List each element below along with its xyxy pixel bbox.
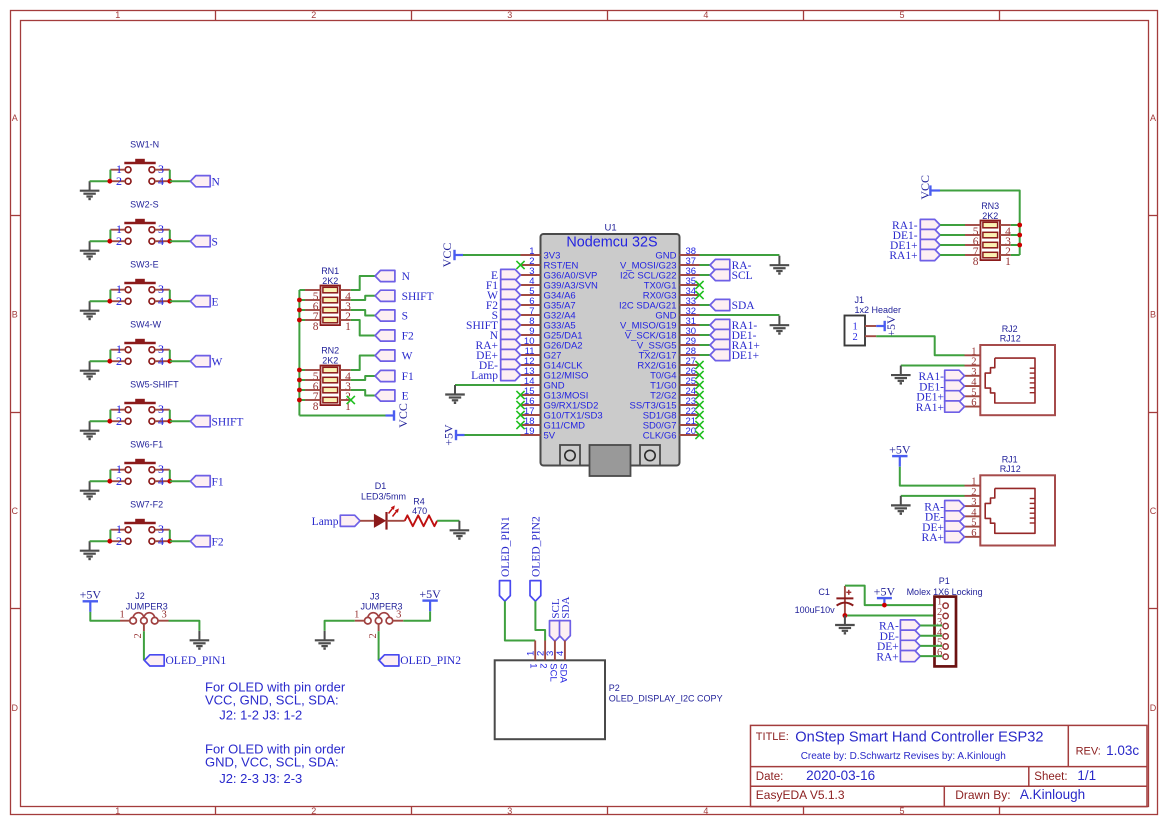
svg-text:4: 4 [158, 294, 164, 308]
svg-text:2: 2 [538, 663, 549, 668]
net flag DE+ [476, 349, 520, 362]
net flag W [190, 356, 222, 369]
pushbutton SW1-N [110, 140, 169, 189]
wire [920, 635, 942, 637]
junction [107, 239, 172, 244]
net flag OLED_PIN2 [530, 516, 543, 601]
svg-text:N: N [402, 271, 411, 283]
power VCC [918, 175, 940, 200]
wire [700, 304, 711, 306]
wire [700, 264, 711, 266]
connector RJ2 RJ12 [965, 324, 1056, 415]
svg-text:2: 2 [116, 474, 122, 488]
wire [700, 314, 780, 316]
svg-text:6: 6 [971, 398, 976, 409]
net flag DE1+ [916, 391, 964, 404]
wire VCC bus [299, 290, 385, 416]
ground [891, 366, 911, 384]
net flag S [375, 310, 408, 323]
svg-text:REV:: REV: [1076, 746, 1101, 758]
power +5V [441, 424, 464, 446]
net flag Lamp [312, 515, 360, 528]
svg-text:P2: P2 [609, 683, 620, 693]
net flag N [375, 270, 411, 283]
jumper J3 JUMPER3 [354, 592, 403, 639]
net flag DE1+ [710, 349, 759, 362]
svg-text:SW4-W: SW4-W [130, 320, 162, 330]
wire [920, 625, 942, 627]
svg-text:2: 2 [116, 534, 122, 548]
ground [80, 421, 100, 439]
wire [465, 434, 521, 436]
power +5V [876, 315, 898, 337]
ground [770, 316, 790, 334]
svg-text:RN1: RN1 [321, 266, 339, 276]
svg-text:2020-03-16: 2020-03-16 [806, 768, 875, 783]
ground [190, 631, 210, 649]
svg-text:5V: 5V [544, 430, 556, 441]
no-connect pins [516, 261, 703, 439]
wire [700, 324, 711, 326]
net flag SCL [550, 598, 562, 641]
svg-text:VCC, GND, SCL, SDA:: VCC, GND, SCL, SDA: [205, 692, 339, 707]
svg-text:SCL: SCL [547, 663, 558, 681]
net flag F2 [375, 330, 414, 343]
wire [940, 244, 965, 246]
wire [170, 180, 191, 182]
wire [170, 360, 191, 362]
net flag RA+ [476, 339, 521, 352]
svg-text:DE1+: DE1+ [732, 350, 760, 362]
net flag N [490, 329, 521, 342]
net flag SCL [710, 269, 753, 282]
pushbutton SW7-F2 [110, 500, 169, 549]
wire [170, 240, 191, 242]
svg-text:Sheet:: Sheet: [1034, 771, 1067, 783]
svg-text:C: C [1150, 506, 1157, 516]
U1 pins [521, 246, 700, 442]
wire [901, 365, 965, 367]
svg-text:Create by: D.Schwartz Revises: Create by: D.Schwartz Revises by: A.Kinl… [801, 751, 1006, 762]
svg-text:RA+: RA+ [876, 651, 898, 663]
pushbutton SW5-SHIFT [110, 380, 179, 429]
svg-text:J2: J2 [135, 591, 145, 601]
wire [876, 336, 964, 355]
wire [920, 655, 942, 657]
svg-text:E: E [402, 391, 409, 403]
net flag OLED_PIN1 [500, 516, 513, 601]
svg-text:OLED_PIN1: OLED_PIN1 [166, 655, 227, 667]
svg-text:F1: F1 [402, 371, 414, 383]
svg-text:2: 2 [853, 332, 858, 343]
net flag RA- [924, 501, 964, 514]
wire [325, 621, 355, 631]
ground [80, 541, 100, 559]
svg-text:Molex 1X6 Locking: Molex 1X6 Locking [907, 587, 983, 597]
wire [940, 254, 965, 256]
svg-text:RA+: RA+ [922, 532, 944, 544]
net flag OLED_PIN2 [379, 655, 461, 667]
svg-text:1: 1 [115, 806, 120, 816]
svg-text:RN2: RN2 [321, 345, 339, 355]
svg-text:+5V: +5V [80, 588, 102, 602]
svg-text:1: 1 [345, 321, 351, 333]
ground [445, 385, 465, 403]
svg-text:OLED_PIN1: OLED_PIN1 [500, 516, 512, 577]
wire [351, 276, 375, 290]
net flag W [375, 350, 413, 363]
net flag DE+ [922, 521, 964, 534]
wire [90, 360, 110, 362]
net flag RA1+ [916, 401, 965, 414]
wire [940, 234, 965, 236]
svg-text:E: E [212, 296, 219, 308]
power +5V [889, 443, 911, 467]
svg-text:A.Kinlough: A.Kinlough [1020, 787, 1085, 802]
power +5V [419, 587, 441, 611]
svg-text:3: 3 [507, 10, 512, 20]
wire [170, 540, 191, 542]
svg-text:Lamp: Lamp [312, 516, 339, 528]
svg-text:2: 2 [311, 10, 316, 20]
net flag RA- [879, 620, 920, 633]
net flag RA1+ [889, 249, 940, 262]
module U1 Nodemcu 32S [541, 223, 680, 476]
LED D1 LED3/5mm [360, 481, 406, 530]
svg-text:2K2: 2K2 [322, 276, 338, 286]
ground [80, 361, 100, 379]
svg-text:2: 2 [368, 633, 379, 638]
wire [700, 354, 711, 356]
svg-text:4: 4 [703, 806, 708, 816]
wire [351, 296, 375, 300]
net flag RA- [710, 259, 752, 272]
wire [900, 467, 965, 486]
net flag S [190, 236, 218, 249]
net flag SHIFT [466, 319, 520, 332]
wire [505, 601, 535, 640]
svg-text:EasyEDA V5.1.3: EasyEDA V5.1.3 [756, 788, 845, 802]
svg-text:1.03c: 1.03c [1106, 743, 1139, 758]
svg-text:OnStep Smart Hand Controller E: OnStep Smart Hand Controller ESP32 [795, 729, 1043, 745]
net flag DE- [925, 511, 965, 524]
net flag DE- [479, 359, 521, 372]
wire [351, 310, 375, 316]
wire [940, 224, 965, 226]
svg-text:J2: 2-3 J3: 2-3: J2: 2-3 J3: 2-3 [219, 771, 302, 786]
net flag F1 [486, 279, 521, 292]
net flag OLED_PIN1 [144, 655, 226, 667]
net flag RA+ [922, 531, 965, 544]
net flag DE- [880, 630, 921, 643]
svg-text:3: 3 [507, 806, 512, 816]
ground [80, 301, 100, 319]
wire [90, 300, 110, 302]
svg-text:4: 4 [158, 354, 164, 368]
wire [901, 495, 965, 497]
capacitor C1 100uF10v [795, 586, 854, 616]
net flag DE1- [919, 380, 964, 393]
junction [297, 298, 302, 403]
wire [169, 621, 200, 631]
junction [107, 479, 172, 484]
resistor network RN2 2K2 [305, 345, 351, 413]
net flag F1 [190, 476, 223, 489]
svg-text:2: 2 [133, 633, 144, 638]
svg-text:1: 1 [119, 610, 124, 621]
svg-text:2: 2 [116, 174, 122, 188]
svg-text:W: W [402, 351, 413, 363]
svg-text:1x2 Header: 1x2 Header [855, 305, 902, 315]
jumper J2 JUMPER3 [119, 591, 168, 638]
ground [891, 496, 911, 514]
wire [437, 520, 459, 522]
svg-text:SDA: SDA [560, 597, 572, 619]
svg-text:2K2: 2K2 [982, 211, 998, 221]
svg-text:SW2-S: SW2-S [130, 200, 159, 210]
junction [107, 419, 172, 424]
svg-text:+5V: +5V [889, 443, 911, 457]
wire [535, 601, 545, 640]
svg-text:U1: U1 [605, 223, 617, 234]
wire [143, 631, 145, 660]
wire [351, 376, 375, 380]
net flag DE1+ [890, 239, 940, 252]
svg-text:Nodemcu 32S: Nodemcu 32S [566, 235, 657, 251]
net flag E [491, 269, 521, 282]
connector J1 1x2 Header [845, 295, 902, 346]
svg-text:RA1+: RA1+ [889, 250, 917, 262]
net flag F2 [190, 536, 223, 549]
svg-text:1/1: 1/1 [1077, 768, 1096, 783]
net flag SDA [560, 597, 572, 642]
svg-text:RA1+: RA1+ [916, 402, 944, 414]
svg-text:SHIFT: SHIFT [402, 291, 434, 303]
svg-text:F2: F2 [402, 331, 414, 343]
net flag S [492, 309, 521, 322]
svg-text:1: 1 [354, 610, 359, 621]
wire [700, 274, 711, 276]
svg-text:8: 8 [973, 256, 979, 268]
net flag N [190, 176, 220, 189]
junction [843, 613, 848, 618]
junction [882, 603, 887, 608]
wire [90, 480, 110, 482]
svg-text:4: 4 [158, 174, 164, 188]
wire [378, 631, 380, 660]
svg-text:B: B [1150, 310, 1156, 320]
note OLED jumper settings 1 [205, 680, 346, 723]
wire [90, 540, 110, 542]
ground [80, 481, 100, 499]
net flag RA1- [918, 370, 964, 383]
svg-text:+5V: +5V [419, 587, 441, 601]
power +5V [874, 585, 896, 606]
svg-text:+5V: +5V [441, 424, 455, 446]
wire [700, 334, 711, 336]
svg-text:SDA: SDA [732, 300, 756, 312]
svg-text:4: 4 [158, 534, 164, 548]
net flag RA1- [892, 219, 940, 232]
net flag Lamp [471, 369, 520, 382]
svg-text:LED3/5mm: LED3/5mm [361, 492, 406, 502]
svg-text:19: 19 [524, 426, 535, 437]
svg-text:RJ12: RJ12 [1000, 334, 1021, 344]
ground [450, 521, 470, 539]
svg-text:A: A [12, 113, 18, 123]
note OLED jumper settings 2 [205, 742, 346, 787]
svg-text:20: 20 [686, 426, 697, 437]
svg-text:P1: P1 [939, 576, 950, 586]
wire [700, 254, 780, 256]
svg-text:RJ12: RJ12 [1000, 464, 1021, 474]
wire [700, 344, 711, 346]
wire [403, 611, 430, 621]
svg-text:100uF10v: 100uF10v [795, 605, 836, 615]
power VCC [440, 243, 463, 268]
wire [463, 254, 521, 256]
svg-text:2: 2 [116, 354, 122, 368]
svg-text:SW5-SHIFT: SW5-SHIFT [130, 380, 179, 390]
net flag E [375, 390, 409, 403]
svg-text:SHIFT: SHIFT [212, 416, 244, 428]
svg-text:8: 8 [313, 401, 319, 413]
svg-text:4: 4 [158, 234, 164, 248]
svg-text:S: S [212, 236, 218, 248]
svg-text:470: 470 [412, 506, 427, 516]
svg-text:OLED_PIN2: OLED_PIN2 [400, 655, 461, 667]
svg-text:JUMPER3: JUMPER3 [360, 602, 402, 612]
svg-text:5: 5 [899, 10, 904, 20]
svg-text:2: 2 [116, 414, 122, 428]
net flag W [487, 289, 520, 302]
svg-text:VCC: VCC [440, 243, 454, 268]
svg-text:4: 4 [158, 414, 164, 428]
svg-text:4: 4 [158, 474, 164, 488]
svg-text:D: D [1150, 703, 1157, 713]
wire [170, 420, 191, 422]
wire [90, 240, 110, 242]
svg-text:F1: F1 [212, 476, 224, 488]
wire [170, 300, 191, 302]
svg-text:C1: C1 [818, 587, 830, 597]
svg-text:2K2: 2K2 [322, 356, 338, 366]
ground [80, 241, 100, 259]
wire [170, 480, 191, 482]
wire [845, 615, 942, 617]
wire [845, 586, 942, 606]
svg-text:D1: D1 [375, 481, 387, 491]
svg-text:SW6-F1: SW6-F1 [130, 440, 163, 450]
svg-text:+5V: +5V [884, 315, 898, 337]
connector P1 Molex 1X6 Locking [907, 576, 983, 667]
svg-text:A: A [1150, 113, 1156, 123]
ground [315, 631, 335, 649]
junction [107, 539, 172, 544]
svg-text:RN3: RN3 [981, 201, 999, 211]
net flag DE1- [893, 229, 940, 242]
svg-text:1: 1 [1005, 256, 1011, 268]
svg-text:OLED_DISPLAY_I2C COPY: OLED_DISPLAY_I2C COPY [609, 694, 723, 704]
svg-text:F2: F2 [212, 536, 224, 548]
svg-text:+5V: +5V [874, 585, 896, 599]
pushbutton SW2-S [110, 200, 169, 249]
resistor network RN3 2K2 [965, 201, 1011, 268]
svg-text:Lamp: Lamp [471, 370, 498, 382]
wire [351, 320, 375, 336]
svg-text:JUMPER3: JUMPER3 [126, 602, 168, 612]
svg-text:Date:: Date: [756, 771, 784, 783]
junction [1017, 223, 1022, 248]
wire [90, 420, 110, 422]
junction [107, 299, 172, 304]
svg-text:SW3-E: SW3-E [130, 260, 159, 270]
wire [90, 180, 110, 182]
power VCC [386, 403, 411, 428]
svg-text:D: D [12, 703, 19, 713]
svg-text:SW1-N: SW1-N [130, 140, 159, 150]
pushbutton SW3-E [110, 260, 169, 309]
svg-text:Drawn By:: Drawn By: [955, 788, 1010, 802]
svg-text:VCC: VCC [396, 403, 410, 428]
ground [80, 181, 100, 199]
junction [107, 359, 172, 364]
net flag SDA [710, 299, 755, 312]
net flag F1 [375, 370, 414, 383]
ground [770, 256, 790, 274]
svg-text:OLED_PIN2: OLED_PIN2 [531, 516, 543, 577]
power +5V [80, 588, 102, 612]
svg-text:2: 2 [311, 806, 316, 816]
svg-text:R4: R4 [413, 497, 425, 507]
svg-text:1: 1 [528, 663, 539, 668]
wire [455, 384, 521, 386]
display P2 OLED_DISPLAY_I2C COPY [495, 641, 723, 740]
resistor network RN1 2K2 [305, 266, 351, 333]
pushbutton SW6-F1 [110, 440, 169, 489]
svg-text:W: W [212, 356, 223, 368]
net flag F2 [486, 299, 521, 312]
net flag SHIFT [190, 416, 243, 429]
svg-text:J3: J3 [370, 592, 380, 602]
wire [351, 390, 375, 396]
svg-text:2: 2 [116, 294, 122, 308]
svg-text:2: 2 [116, 234, 122, 248]
ground [835, 616, 855, 634]
svg-text:4: 4 [703, 10, 708, 20]
net flag DE1- [710, 329, 757, 342]
svg-text:C: C [12, 506, 19, 516]
junction [107, 179, 172, 184]
svg-text:4: 4 [555, 651, 566, 656]
net flag RA+ [876, 651, 920, 664]
no-connect RN2 pin1 [347, 396, 355, 404]
svg-text:GND, VCC, SCL, SDA:: GND, VCC, SCL, SDA: [205, 754, 339, 769]
svg-text:SDA: SDA [557, 663, 568, 683]
wire VCC to RN3 [940, 191, 1020, 256]
svg-text:TITLE:: TITLE: [756, 731, 789, 743]
svg-text:B: B [12, 310, 18, 320]
net flag E [190, 296, 218, 309]
svg-text:6: 6 [971, 528, 976, 539]
pushbutton SW4-W [110, 320, 169, 369]
svg-text:N: N [212, 176, 221, 188]
resistor R4 470 [405, 497, 437, 527]
svg-text:1: 1 [115, 10, 120, 20]
net flag RA1- [710, 319, 757, 332]
svg-text:SW7-F2: SW7-F2 [130, 500, 163, 510]
wire [920, 645, 942, 647]
